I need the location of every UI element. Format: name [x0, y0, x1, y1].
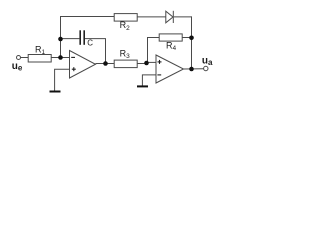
svg-text:C: C [87, 38, 93, 47]
svg-text:ua: ua [202, 56, 213, 68]
svg-text:ue: ue [12, 61, 23, 73]
svg-text:R3: R3 [120, 48, 131, 60]
svg-text:R1: R1 [35, 44, 46, 56]
svg-text:R4: R4 [166, 40, 177, 52]
svg-text:R2: R2 [120, 20, 131, 32]
